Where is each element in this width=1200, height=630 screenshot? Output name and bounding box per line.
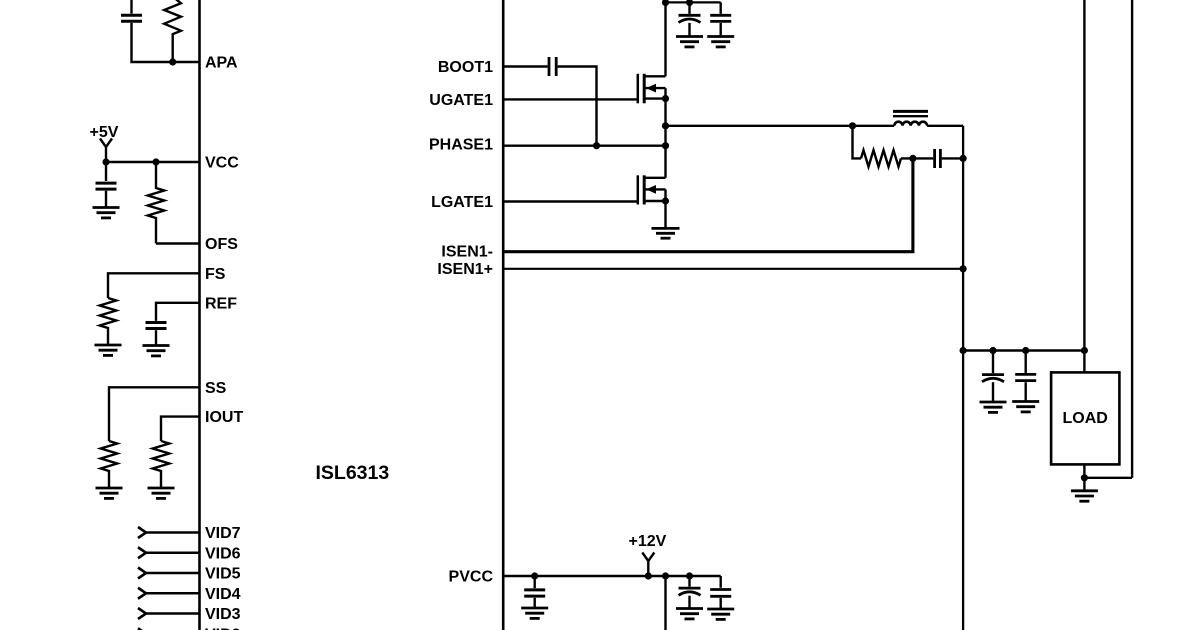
transistor Q2 body stub xyxy=(644,188,665,190)
ground below C_IN4 xyxy=(707,609,734,619)
capacitor C_OUT2 plates xyxy=(1015,374,1036,380)
capacitor C_OUT1 plates (polarized) xyxy=(982,375,1004,382)
wire FS xyxy=(108,273,200,298)
resistor R_OFS xyxy=(148,162,165,244)
svg-text:ISEN1+: ISEN1+ xyxy=(437,261,493,278)
wire BOOT1 to phase xyxy=(558,67,597,146)
node phase to inductor junction xyxy=(662,122,669,129)
wire UGATE1 xyxy=(503,98,638,100)
transistor Q2 body arrow xyxy=(646,185,656,194)
node +12V junction xyxy=(645,572,652,579)
IC U1 ISL6313 right edge xyxy=(502,0,505,630)
capacitor C_IN1 lead xyxy=(688,2,690,14)
wire SS xyxy=(109,387,200,441)
node PVCC down junction xyxy=(662,572,669,579)
svg-text:LOAD: LOAD xyxy=(1063,410,1108,427)
supply symbol +5V xyxy=(100,139,112,163)
wire VID7 xyxy=(146,531,200,533)
ground below C_IN1 xyxy=(676,37,703,47)
wire sense line A (from above) xyxy=(1083,0,1085,372)
ground below LOAD xyxy=(1071,491,1098,501)
node PVCC cap pair junction xyxy=(686,572,693,579)
wire top +12V rail xyxy=(666,1,721,3)
ground below R_FS xyxy=(95,345,122,355)
wire VCC xyxy=(106,161,200,163)
resistor R_IOUT xyxy=(153,441,170,487)
ground below R_IOUT xyxy=(148,488,175,498)
ground below R_SS xyxy=(96,488,123,498)
wire sense line B to load ground xyxy=(1084,477,1132,479)
svg-text:ISEN1-: ISEN1- xyxy=(441,244,493,261)
wire C_IN1 to ground xyxy=(688,23,690,36)
capacitor C_PVCC plates xyxy=(524,590,545,596)
node top rail drain junction xyxy=(662,0,669,6)
svg-text:+12V: +12V xyxy=(629,533,667,550)
node Q1 source junction xyxy=(662,95,669,102)
wire C_PVCC to ground xyxy=(534,598,536,608)
capacitor C_APA top lead xyxy=(130,0,132,14)
wire C_IN4 to ground xyxy=(720,598,722,608)
wire +12V drop to lower channel xyxy=(664,576,666,630)
svg-text:VID4: VID4 xyxy=(205,586,241,603)
capacitor C_IN3 plates (polarized) xyxy=(679,588,701,595)
transistor Q2 source stub xyxy=(644,200,665,202)
svg-text:BOOT1: BOOT1 xyxy=(438,59,493,76)
node APA junction xyxy=(169,58,176,65)
node top rail cap junction xyxy=(686,0,693,6)
node PHASE1 bootstrap junction xyxy=(593,142,600,149)
node output rail load junction xyxy=(1081,347,1088,354)
input arrow VID2 (clipped at bottom) xyxy=(138,628,146,630)
wire phase to inductor xyxy=(666,125,895,127)
capacitor C_PVCC lead xyxy=(534,576,536,588)
wire output rail xyxy=(963,349,1084,351)
capacitor C_OUT2 lead xyxy=(1024,351,1026,374)
capacitor C_IN1 plates (polarized) xyxy=(679,15,701,22)
input arrow VID6 xyxy=(138,547,146,558)
capacitor C_VCC lead xyxy=(105,162,107,181)
svg-text:VCC: VCC xyxy=(205,155,239,172)
svg-text:SS: SS xyxy=(205,380,227,397)
transistor Q2 gate bar xyxy=(637,175,640,204)
capacitor C_REF plates xyxy=(146,323,167,329)
wire C_SEN to output xyxy=(942,157,963,159)
svg-text:VID7: VID7 xyxy=(205,525,241,542)
wire phase node vertical xyxy=(664,88,666,178)
svg-text:VID6: VID6 xyxy=(205,545,241,562)
svg-text:PVCC: PVCC xyxy=(449,569,494,586)
svg-text:FS: FS xyxy=(205,266,226,283)
node output cap1 junction xyxy=(989,347,996,354)
svg-text:UGATE1: UGATE1 xyxy=(429,92,493,109)
wire R_SEN to node xyxy=(901,157,933,159)
wire PVCC xyxy=(503,575,721,577)
node output rail left junction xyxy=(960,347,967,354)
capacitor C_IN4 lead xyxy=(720,576,722,588)
IC U1 ISL6313 left edge xyxy=(198,0,201,630)
resistor R_SEN xyxy=(861,150,901,167)
capacitor C_IN4 plates xyxy=(710,590,731,597)
supply symbol +12V xyxy=(642,553,654,577)
capacitor C_IN2 lead xyxy=(720,2,722,14)
wire PHASE1 xyxy=(503,144,665,146)
wire VID6 xyxy=(146,552,200,554)
svg-text:APA: APA xyxy=(205,55,238,72)
ground below C_OUT1 xyxy=(980,402,1007,412)
wire OFS xyxy=(156,242,200,244)
svg-text:ISL6313: ISL6313 xyxy=(316,462,390,484)
capacitor C_VCC plates xyxy=(96,183,117,189)
wire C_APA bottom lead xyxy=(132,23,200,62)
node sense branch junction xyxy=(849,122,856,129)
capacitor C_BOOT plates xyxy=(549,57,556,76)
svg-text:VID5: VID5 xyxy=(205,566,241,583)
ground below C_REF xyxy=(143,346,170,356)
wire ISEN1+ xyxy=(503,268,963,270)
inductor L1 core bars xyxy=(893,111,928,116)
ground below C_VCC xyxy=(93,208,120,218)
svg-text:LGATE1: LGATE1 xyxy=(431,194,493,211)
LOAD box xyxy=(1051,372,1119,464)
svg-text:PHASE1: PHASE1 xyxy=(429,136,493,153)
wire BOOT1 xyxy=(503,65,547,67)
node Q2 source junction xyxy=(662,197,669,204)
transistor Q2 drain stub xyxy=(644,177,665,179)
node ISEN1+ junction xyxy=(960,265,967,272)
wire VID3 xyxy=(146,612,200,614)
transistor Q2 channel bar xyxy=(643,175,646,204)
transistor Q1 drain stub xyxy=(644,75,665,77)
input arrow VID5 xyxy=(138,568,146,579)
wire C_OUT1 to ground xyxy=(992,382,994,401)
wire C_REF to ground xyxy=(155,330,157,345)
svg-text:VID3: VID3 xyxy=(205,606,241,623)
wire IOUT xyxy=(161,417,200,441)
resistor R_FS xyxy=(100,298,117,344)
node LOAD ground junction xyxy=(1081,474,1088,481)
node PVCC cap junction xyxy=(531,572,538,579)
capacitor C_APA plates xyxy=(121,15,142,21)
node output cap2 junction xyxy=(1022,347,1029,354)
input arrow VID4 xyxy=(138,588,146,599)
svg-text:IOUT: IOUT xyxy=(205,409,243,426)
capacitor C_SEN plates xyxy=(935,149,941,168)
resistor R_APA xyxy=(164,0,181,62)
ground below C_PVCC xyxy=(521,608,548,618)
transistor Q1 body arrow xyxy=(646,84,656,93)
wire C_IN2 to ground xyxy=(720,23,722,36)
wire VID4 xyxy=(146,592,200,594)
transistor Q1 body stub xyxy=(644,87,665,89)
transistor Q1 source stub xyxy=(644,97,665,99)
input arrow VID3 xyxy=(138,608,146,619)
wire sense line B (from above) xyxy=(1131,0,1133,478)
node sense RC junction xyxy=(909,155,916,162)
wire C_IN3 to ground xyxy=(688,596,690,608)
transistor Q1 channel bar xyxy=(643,74,646,104)
wire +12V input drop to Q1 drain xyxy=(664,0,666,76)
wire C_OUT2 to ground xyxy=(1024,382,1026,401)
wire LOAD bottom xyxy=(1083,464,1085,490)
wire inductor to output xyxy=(927,125,963,127)
transistor Q1 gate bar xyxy=(637,74,640,104)
node sense output junction xyxy=(960,155,967,162)
ground below C_IN2 xyxy=(707,37,734,47)
inductor L1 winding xyxy=(894,122,927,126)
node VCC resistor junction xyxy=(152,158,159,165)
wire sense branch down xyxy=(853,126,862,159)
wire C_VCC to ground xyxy=(105,191,107,207)
wire ISEN1- xyxy=(503,158,913,251)
ground below C_OUT2 xyxy=(1012,402,1039,412)
node PHASE1 pin junction xyxy=(662,142,669,149)
svg-text:OFS: OFS xyxy=(205,236,238,253)
capacitor C_OUT1 lead xyxy=(992,351,994,374)
ground below C_IN3 xyxy=(676,609,703,619)
wire REF xyxy=(156,303,200,321)
wire Q2 source to ground xyxy=(664,189,666,227)
capacitor C_IN3 lead xyxy=(688,576,690,587)
wire VID5 xyxy=(146,572,200,574)
svg-text:REF: REF xyxy=(205,295,237,312)
wire LGATE1 xyxy=(503,200,638,202)
resistor R_SS xyxy=(101,441,118,487)
wire output vertical xyxy=(962,126,964,630)
node VCC supply junction xyxy=(102,158,109,165)
svg-text:VID2: VID2 xyxy=(205,626,241,630)
svg-text:+5V: +5V xyxy=(90,124,119,141)
input arrow VID7 xyxy=(138,527,146,538)
capacitor C_IN2 plates xyxy=(710,15,731,21)
ground below Q2 xyxy=(652,228,680,238)
